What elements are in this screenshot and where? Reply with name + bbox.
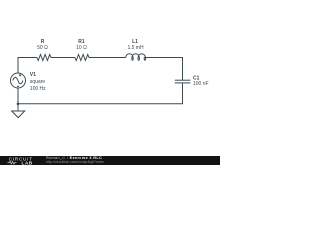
svg-text:1.5 mH: 1.5 mH — [127, 45, 144, 51]
watermark CircuitLab logo — [0, 156, 44, 165]
svg-text:100 nF: 100 nF — [193, 81, 209, 87]
wire: C1 bottom plate down and bottom rail to ground node — [18, 83, 183, 104]
watermark bar — [0, 156, 220, 165]
voltage source V1 — [11, 73, 26, 88]
wire: V1 bottom terminal down to ground node — [17, 88, 19, 104]
ground — [12, 111, 25, 118]
wire: V1 top terminal up to top rail and right to R — [18, 58, 37, 74]
inductor L1 — [126, 54, 147, 61]
capacitor C1 bottom plate — [175, 82, 191, 84]
wire: R1 to L1 — [89, 57, 126, 59]
capacitor C1 top plate — [175, 79, 191, 81]
svg-text:square: square — [30, 79, 46, 85]
svg-text:100 Hz: 100 Hz — [30, 86, 46, 92]
svg-text:10 Ω: 10 Ω — [76, 45, 87, 51]
wire: L1 to top-right corner down to C1 top plate — [147, 58, 183, 80]
watermark title text — [46, 157, 218, 165]
svg-text:LAB: LAB — [22, 161, 33, 165]
wire: R to R1 — [51, 57, 75, 59]
resistor R1 — [75, 55, 89, 61]
svg-text:50 Ω: 50 Ω — [37, 45, 48, 51]
wire: ground stub — [17, 104, 19, 111]
resistor R — [37, 55, 51, 61]
junction node at ground — [17, 103, 20, 106]
svg-text:V1: V1 — [30, 72, 36, 78]
